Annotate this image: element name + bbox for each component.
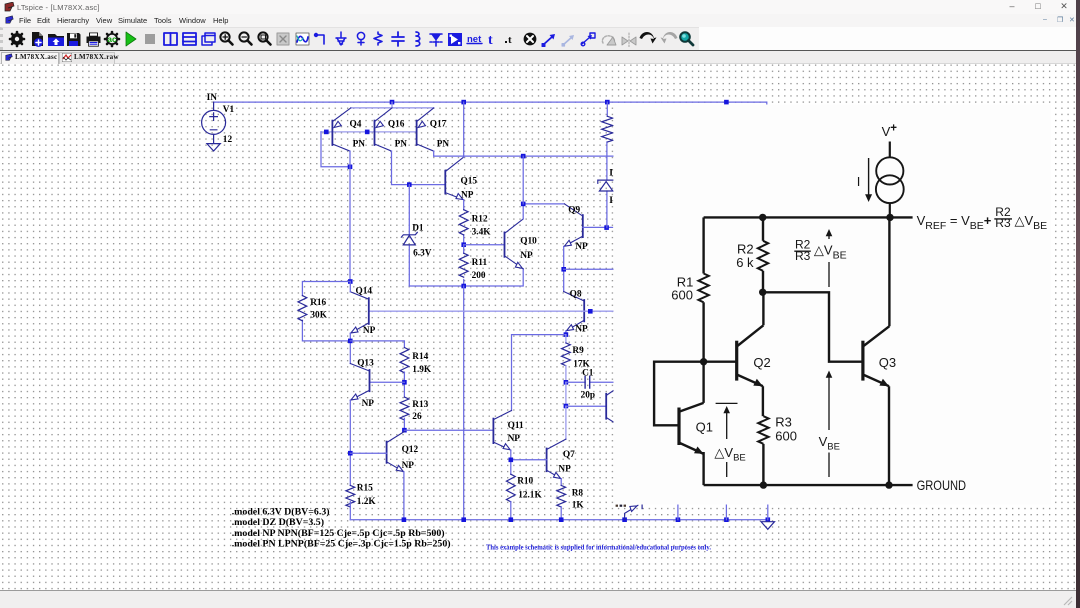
svg-text:200: 200 bbox=[472, 271, 486, 281]
svg-text:600: 600 bbox=[671, 288, 693, 303]
svg-text:IN: IN bbox=[207, 93, 218, 103]
svg-text:R14: R14 bbox=[412, 352, 428, 362]
drag bbox=[581, 33, 595, 46]
resistor R9 bbox=[565, 335, 567, 343]
ground symbol bottom right bbox=[761, 522, 774, 530]
wire C1 node down bbox=[565, 382, 567, 406]
svg-text:C1: C1 bbox=[582, 368, 594, 378]
transistor Q3 bbox=[861, 341, 864, 381]
wire stub right y269 bbox=[564, 268, 614, 270]
svg-text:Q12: Q12 bbox=[402, 445, 419, 455]
svg-text:Q11: Q11 bbox=[508, 421, 524, 431]
zoom out bbox=[239, 32, 251, 44]
svg-text:Q4: Q4 bbox=[350, 119, 362, 129]
menu bar bbox=[0, 14, 1077, 27]
resistor R14 bbox=[400, 348, 409, 373]
pane gray bbox=[277, 33, 289, 45]
wire Q7 collector up bbox=[565, 406, 567, 439]
svg-text:R13: R13 bbox=[412, 400, 428, 410]
resistor R13 bbox=[400, 397, 409, 420]
control panel gear+ac bbox=[105, 32, 119, 46]
resistor R16 branch bbox=[302, 282, 350, 341]
svg-text:600: 600 bbox=[775, 429, 797, 444]
wire Q10 collector up / across to Q9 bbox=[523, 204, 564, 219]
node on IN rail at Q15 collector bbox=[461, 100, 466, 105]
wire stub to rail 726 bbox=[725, 505, 727, 520]
wire Q9 emitter down bbox=[563, 247, 565, 292]
wire Q10 base bbox=[464, 244, 505, 246]
node R14-R13 / Q13 base bbox=[402, 380, 407, 385]
svg-text:3.4K: 3.4K bbox=[472, 227, 492, 237]
node C1 junction bbox=[564, 380, 569, 385]
node base rail left bbox=[324, 130, 329, 135]
node y406 junction bbox=[564, 404, 569, 409]
node on IN rail above Q4 group bbox=[390, 100, 395, 105]
run bbox=[126, 32, 136, 46]
svg-text:Q15: Q15 bbox=[461, 177, 478, 187]
svg-text:NP: NP bbox=[362, 399, 375, 409]
halt (disabled) bbox=[145, 34, 155, 44]
node Q10 collector top bbox=[521, 202, 526, 207]
wire stub to rail 768 bbox=[767, 505, 769, 520]
node base rail mid bbox=[365, 130, 370, 135]
node R2 bottom bbox=[759, 289, 766, 296]
wire VREF rail bbox=[704, 216, 913, 218]
wire Q12 base bbox=[350, 452, 386, 454]
wire Q12 emitter down bbox=[403, 472, 405, 520]
redo bbox=[661, 32, 678, 44]
capacitor C1 bbox=[566, 381, 614, 383]
wire D1 bottom to R11 node bbox=[409, 269, 523, 286]
save bbox=[67, 33, 81, 46]
wire Q13 emitter down to R15 bbox=[349, 400, 351, 485]
wire Q4 collector down bbox=[349, 151, 351, 281]
rotate (disabled) bbox=[602, 36, 616, 45]
directive tool bbox=[505, 34, 512, 46]
node rail R10 bbox=[509, 517, 514, 522]
ground tool bbox=[336, 32, 346, 45]
resistor R11 bbox=[463, 245, 465, 286]
transistor Q2 bbox=[735, 341, 738, 381]
svg-text:1.9K: 1.9K bbox=[412, 365, 432, 375]
waveform bbox=[296, 33, 309, 45]
svg-text:R3: R3 bbox=[775, 415, 792, 430]
svg-text:R15: R15 bbox=[357, 483, 373, 493]
transistor Q11 (NPN) bbox=[492, 419, 494, 444]
node rail stub2 bbox=[676, 517, 681, 522]
print bbox=[87, 33, 101, 47]
wire Q9 base bbox=[583, 226, 613, 228]
svg-text:30K: 30K bbox=[310, 311, 327, 321]
svg-text:R8: R8 bbox=[572, 489, 584, 499]
overlay background bbox=[614, 105, 1052, 505]
node VREF-R2 bbox=[759, 214, 766, 221]
toolbar bbox=[0, 27, 699, 50]
blue tick below overlay bbox=[641, 505, 643, 509]
wire Q4 base-collector loop bbox=[321, 132, 350, 167]
.model directives text bbox=[232, 506, 451, 549]
annotation mid arrow bbox=[826, 229, 833, 236]
wire Q13 base bbox=[370, 381, 405, 383]
schematic labels bbox=[207, 93, 595, 511]
resistor R12 bbox=[463, 200, 465, 245]
svg-text:I: I bbox=[609, 196, 613, 206]
component tool bbox=[448, 33, 462, 46]
transistor Q1 bbox=[677, 408, 680, 446]
inductor tool bbox=[416, 32, 420, 46]
svg-text:Q2: Q2 bbox=[753, 355, 770, 370]
wire Q17 collector down bbox=[433, 151, 435, 156]
wire top resistor branch x607 bbox=[606, 102, 608, 228]
svg-text:NP: NP bbox=[575, 242, 588, 252]
svg-text:NP: NP bbox=[508, 434, 521, 444]
move faded bbox=[562, 35, 574, 46]
search bbox=[680, 32, 693, 45]
capacitor tool bbox=[392, 32, 404, 46]
svg-text:12: 12 bbox=[223, 135, 233, 145]
wire Q14 collector vert bbox=[349, 282, 351, 292]
svg-text:Q7: Q7 bbox=[563, 450, 575, 460]
wire rail156 down join bbox=[522, 156, 524, 204]
node Q8 base bbox=[588, 309, 593, 314]
transistor Q4 (PNP) bbox=[331, 121, 333, 145]
svg-text:NP: NP bbox=[363, 326, 376, 336]
annotation VBE arrow bbox=[826, 371, 833, 378]
svg-text:R11: R11 bbox=[472, 258, 488, 268]
wire stub to rail 678 bbox=[677, 505, 679, 520]
resistor R8 bbox=[557, 485, 566, 507]
svg-text:R16: R16 bbox=[310, 298, 326, 308]
cascade bbox=[202, 33, 215, 45]
wire bottom rail bbox=[350, 519, 768, 521]
wire Q15 collector up bbox=[463, 102, 465, 157]
svg-text:NP: NP bbox=[461, 190, 474, 200]
svg-text:.model DZ D(BV=3.5): .model DZ D(BV=3.5) bbox=[232, 517, 324, 528]
wire emitter rail Q4 Q16 Q17 bbox=[351, 102, 434, 108]
wire base rail Q4 Q16 Q17 bbox=[321, 131, 417, 133]
svg-text:26: 26 bbox=[412, 412, 422, 422]
svg-text:PN: PN bbox=[437, 139, 450, 149]
wire R11 bottom down to rail bbox=[463, 286, 465, 520]
svg-text:GROUND: GROUND bbox=[917, 477, 967, 493]
node R3 ground bbox=[760, 481, 767, 488]
svg-text:20p: 20p bbox=[581, 391, 595, 401]
diode tool bbox=[430, 34, 442, 46]
svg-text:PN: PN bbox=[353, 139, 366, 149]
resistor top right bbox=[602, 116, 613, 142]
svg-text:1K: 1K bbox=[572, 501, 585, 511]
svg-text:NP: NP bbox=[402, 461, 415, 471]
node Q8 emitter junction bbox=[564, 332, 569, 337]
transistor Q8 (NPN mirrored) bbox=[583, 300, 585, 321]
wire Q7 emitter to R8 bbox=[560, 479, 562, 486]
svg-text:I: I bbox=[857, 174, 861, 189]
node Q11 emitter bbox=[509, 458, 514, 463]
svg-text:6.3V: 6.3V bbox=[413, 249, 432, 259]
node rail stub3 bbox=[724, 517, 729, 522]
voltage source V1 bbox=[202, 102, 226, 143]
svg-text:12.1K: 12.1K bbox=[518, 491, 542, 501]
node Q4 collector join bbox=[348, 165, 353, 170]
svg-text:D1: D1 bbox=[412, 223, 424, 233]
svg-text:NP: NP bbox=[575, 325, 588, 335]
zoom full bbox=[258, 32, 270, 44]
svg-text:Q3: Q3 bbox=[879, 355, 896, 370]
transistor Q10 (NPN) bbox=[504, 232, 506, 256]
net tool bbox=[467, 34, 482, 45]
wire Q8 emitter to node bbox=[565, 331, 567, 335]
svg-text:Q14: Q14 bbox=[356, 287, 373, 297]
svg-text:R10: R10 bbox=[517, 477, 533, 487]
svg-text:NP: NP bbox=[520, 251, 533, 261]
transistor Q14 (NPN mirrored) bbox=[368, 298, 370, 324]
svg-text:Q17: Q17 bbox=[430, 119, 447, 129]
svg-text:.model PN LPNP(BF=25 Cje=.3p C: .model PN LPNP(BF=25 Cje=.3p Cjc=1.5p Rb… bbox=[232, 539, 451, 550]
wire GROUND rail bbox=[704, 484, 913, 486]
wire Q1 feedback loop bbox=[654, 362, 704, 426]
node rail156 at x523 bbox=[521, 154, 526, 159]
node R1 bottom bbox=[700, 358, 707, 365]
transistor Q9 (NPN mirrored) bbox=[582, 215, 584, 237]
transistor Q12 (NPN) bbox=[386, 442, 388, 463]
svg-text:.model 6.3V D(BV=6.3): .model 6.3V D(BV=6.3) bbox=[232, 506, 330, 517]
window hsplit bbox=[183, 33, 196, 45]
new schematic bbox=[32, 32, 43, 47]
wire Q11 emitter down / Q7 base bbox=[511, 450, 547, 474]
wire long light rail y311 (Q14 base to Q8 base) bbox=[369, 310, 614, 312]
svg-text:R9: R9 bbox=[572, 346, 584, 356]
hidden transistor emitter arrow below overlay bbox=[625, 505, 638, 519]
resistor R2 bbox=[762, 217, 764, 240]
svg-text:1.2K: 1.2K bbox=[357, 497, 377, 507]
wire Q16 collector to D1 node bbox=[392, 151, 446, 185]
svg-text:Q10: Q10 bbox=[520, 237, 537, 247]
open bbox=[48, 34, 64, 46]
resistor R1 bbox=[702, 217, 704, 273]
desktop wallpaper sliver bbox=[1076, 0, 1080, 608]
svg-text:Q13: Q13 bbox=[357, 358, 374, 368]
wire y406 to hidden transistor bbox=[566, 405, 606, 407]
transistor Q17 (PNP) bbox=[416, 121, 418, 145]
node rail R8 bbox=[559, 517, 564, 522]
svg-text:NP: NP bbox=[558, 465, 571, 475]
zener diode D1 bbox=[408, 185, 410, 286]
wire y334 left to Q11 collector bbox=[512, 335, 566, 411]
fraction bars bbox=[794, 219, 1012, 251]
wire Q3 base net bbox=[763, 292, 863, 361]
node Q9 base right bbox=[604, 225, 609, 230]
arrow I bbox=[868, 158, 870, 196]
wire tool bbox=[315, 34, 324, 44]
node rail R11 line bbox=[461, 517, 466, 522]
svg-text:This example schematic is supp: This example schematic is supplied for i… bbox=[486, 545, 711, 552]
mirror (disabled) bbox=[622, 33, 636, 47]
node R12-R11 / Q10 base bbox=[461, 242, 466, 247]
window title bar bbox=[0, 0, 1077, 14]
undo bbox=[640, 32, 657, 44]
wire R14 branch top bbox=[350, 341, 404, 348]
node on IN rail at top resistor bbox=[605, 100, 610, 105]
resistor R15 bbox=[346, 485, 355, 507]
node R13 bottom / Q11 base bbox=[402, 428, 407, 433]
svg-text:Q16: Q16 bbox=[388, 119, 405, 129]
wire IN top rail bbox=[214, 102, 767, 105]
node R16 top bbox=[348, 279, 353, 284]
delete bbox=[524, 33, 537, 46]
node V+ lead bbox=[889, 142, 891, 158]
diode right column bbox=[598, 180, 613, 191]
move bbox=[542, 34, 555, 47]
transistor Q7 (NPN) bbox=[546, 449, 548, 472]
node Q15 base / D1 top bbox=[407, 182, 412, 187]
svg-text:Q8: Q8 bbox=[570, 290, 582, 300]
node rail Q12 bbox=[402, 517, 407, 522]
node Q9 emitter / Q8 collector bbox=[561, 267, 566, 272]
ellipsis specks below overlay bbox=[616, 505, 626, 507]
resistor tool bbox=[374, 32, 382, 45]
node Q14 emitter / R14 bbox=[348, 339, 353, 344]
node R11 bottom bbox=[461, 284, 466, 289]
resistor R10 bbox=[506, 474, 515, 502]
node VREF out bbox=[886, 214, 893, 221]
node Q12 base junction bbox=[348, 451, 353, 456]
svg-text:R12: R12 bbox=[472, 214, 488, 224]
svg-text:Q9: Q9 bbox=[568, 206, 580, 216]
svg-text:I: I bbox=[609, 169, 613, 179]
transistor Q13 (NPN mirrored) bbox=[369, 370, 371, 391]
overlay figure text bbox=[671, 122, 1047, 492]
zoom in bbox=[220, 32, 232, 44]
resistor R3 bbox=[758, 416, 768, 444]
window vsplit bbox=[164, 33, 177, 45]
transistor Q15 (NPN) bbox=[444, 171, 446, 194]
wire long rail y156 bbox=[434, 155, 614, 157]
hidden transistor at overlay edge bbox=[605, 394, 607, 419]
wire Q14 emitter down bbox=[349, 333, 351, 363]
label tool bbox=[357, 32, 364, 45]
node on IN rail right bbox=[724, 100, 729, 105]
node rail ground bbox=[766, 517, 771, 522]
svg-text:.model NP NPN(BF=125 Cje=.5p C: .model NP NPN(BF=125 Cje=.5p Cjc=.5p Rb=… bbox=[232, 528, 445, 539]
wire Q11 base long bbox=[404, 429, 493, 431]
svg-text:6 k: 6 k bbox=[736, 255, 754, 270]
svg-text:PN: PN bbox=[395, 139, 408, 149]
annotation dVBE arrow bbox=[716, 402, 738, 404]
svg-text:Q1: Q1 bbox=[696, 420, 713, 435]
tab bar bbox=[0, 51, 1077, 64]
node rail hidden emitter bbox=[622, 517, 627, 522]
transistor Q16 (PNP) bbox=[374, 121, 376, 145]
svg-text:V1: V1 bbox=[223, 105, 235, 115]
node Q3 ground bbox=[885, 481, 892, 488]
current source I bbox=[876, 157, 903, 184]
ground (below V1) bbox=[207, 144, 220, 151]
gear bbox=[10, 32, 24, 46]
